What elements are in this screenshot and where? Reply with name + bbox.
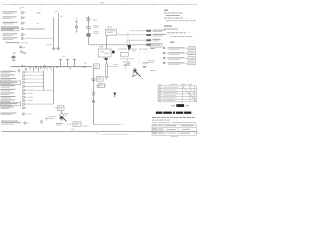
feeder breaker on riser (92, 77, 103, 82)
earth arrow symbol (113, 93, 116, 98)
load row 4 boxed label (0, 81, 20, 84)
busbar joint marks (21, 65, 72, 69)
wire board to T3 (61, 110, 63, 113)
distribution board box bottom center (55, 106, 64, 111)
collector riser below bus (53, 67, 55, 105)
terminal list row 3 (163, 57, 196, 60)
incoming feeder row 5 label (3, 33, 18, 35)
sheet top border line (2, 4, 198, 6)
stub load row 7 (28, 93, 33, 95)
title block left col entries (153, 125, 162, 134)
notes heading 2 (164, 26, 172, 27)
feeder tick 1 below bus (30, 67, 32, 71)
cable end fade (120, 124, 125, 126)
wire row 6 to riser (26, 37, 54, 39)
micro label below-bus tick 2 (40, 67, 42, 70)
riser label text (96, 85, 102, 87)
wire row 4 (26, 28, 45, 30)
load row 2 label (1, 74, 15, 76)
small mark right of spare row (45, 117, 48, 121)
wire row 7 (21, 42, 29, 44)
terminal list row 4 (163, 62, 196, 65)
company address line (152, 117, 196, 119)
fuse symbol load row 10 (23, 103, 25, 105)
feeder tick 5 below bus (50, 67, 52, 71)
incoming feeder row 2 label (3, 16, 17, 18)
notes line 7 (170, 36, 193, 38)
notes line 5 (164, 28, 178, 31)
riser wire 2 from feeder rows (58, 13, 60, 50)
small device bottom mid-left (40, 120, 43, 124)
CT on riser (92, 92, 95, 95)
micro label bus stub (62, 55, 65, 58)
fuse symbol load row 1 (23, 71, 25, 73)
title block grid (152, 124, 196, 135)
fuse symbol row 4 (21, 28, 25, 30)
feeder tick 2 below bus (33, 67, 35, 72)
destination tag 3 (146, 39, 160, 41)
corner reference tick (21, 7, 24, 10)
winding ticks above wire (126, 41, 128, 45)
wire below junction (107, 66, 119, 68)
stub spare row (28, 113, 33, 115)
load row 10 boxed label (0, 102, 20, 105)
instrument stub 3 above bus (73, 59, 75, 67)
wire load row 3 (27, 78, 44, 80)
wire load row 2 (27, 75, 44, 77)
fuse symbol load row 7 (23, 93, 25, 95)
destination tag 1 (146, 30, 165, 32)
revision table header text (159, 83, 193, 86)
riser wire from feeder rows (53, 18, 55, 51)
fuse symbol row 6 (21, 37, 25, 39)
notes line 4 (166, 20, 196, 22)
terminal list row 2 (163, 52, 196, 55)
micro label above relay box (107, 26, 112, 29)
wire stub row 3 (37, 22, 40, 24)
instrument stub 1 above bus (59, 59, 61, 67)
notes line 6 (167, 32, 192, 34)
project text line 1 (152, 119, 177, 121)
riser tie dash (54, 47, 59, 49)
stub load row 8 (28, 96, 33, 98)
fuse symbol load row 4 (23, 82, 25, 84)
bus end cluster box (93, 64, 99, 69)
revision table grid (158, 86, 197, 102)
incoming feeder row 7 label (6, 41, 20, 44)
bus coupler diamond (43, 65, 46, 69)
T3 labels (56, 123, 63, 125)
instrument stub 2 above bus (66, 59, 68, 67)
T2 tail dash (140, 78, 144, 80)
contact symbol cluster A (20, 46, 26, 48)
load row 8 label (1, 96, 16, 98)
outgoing feeder riser (93, 69, 95, 125)
sheet fold mark top center (100, 2, 104, 4)
wire load row 4 (27, 82, 44, 84)
wire panel to switchgear (106, 35, 108, 49)
fuse symbol row 2 (21, 17, 25, 19)
neutral earthing resistor column (105, 64, 109, 80)
notes line 2 (166, 14, 180, 17)
notes line 3 (164, 17, 190, 19)
drawing number cells (180, 129, 196, 134)
metering text row right of T1 (118, 48, 155, 49)
load row 9 label (1, 100, 16, 102)
wire load row 10 long (27, 103, 54, 105)
fuse symbol row 1 (21, 12, 25, 14)
owner logo mark (172, 102, 190, 107)
notes heading (164, 10, 168, 11)
below-box marks (103, 57, 104, 60)
busbar tap circles (29, 66, 85, 67)
footer mark below title block (171, 135, 178, 138)
sheet size mark outside (197, 133, 199, 134)
riser side text (47, 43, 52, 46)
metering text rows (120, 50, 156, 70)
fuse symbol spare row (22, 113, 24, 115)
symbol beside note (24, 122, 29, 124)
contact symbol cluster B (21, 50, 27, 54)
note paragraph bottom left (1, 121, 21, 125)
kiosk box bottom center (73, 122, 89, 127)
tap changer dark node (112, 51, 115, 54)
CT metering stack top center (86, 16, 99, 45)
feeder tick 4 below bus (47, 67, 49, 71)
terminal list row 1 (163, 47, 196, 50)
incoming feeder row 4 label (1, 27, 19, 31)
micro label riser top 2 (60, 15, 63, 18)
outgoing line 3 (127, 39, 146, 41)
revision row entries (159, 87, 179, 101)
fuse symbol row 5 (21, 34, 25, 36)
board label texts (48, 113, 69, 119)
incoming feeder row 1 label (3, 11, 18, 13)
boxed label near tags (151, 44, 163, 48)
load row 3 label (1, 78, 17, 80)
destination tag 2 (146, 34, 166, 36)
destination tag 4 (146, 44, 151, 46)
fuse symbol load row 3 (23, 78, 25, 80)
fuse symbol load row 5 (23, 85, 25, 87)
fuse symbol load row 8 (23, 96, 25, 98)
footer microtext (71, 129, 130, 135)
ladder jog (127, 31, 129, 40)
drawing title text (165, 125, 195, 133)
switchgear outlet dark mark (105, 58, 108, 60)
riser breaker 2 (58, 48, 60, 50)
company name bold (156, 112, 192, 114)
relay panel box (106, 29, 117, 35)
aux device box mid (98, 84, 105, 88)
feeder tick 3 below bus (38, 67, 40, 72)
micro label near bus right (84, 62, 87, 65)
main switchgear box (98, 45, 111, 57)
potential transformer stub (75, 18, 78, 33)
load row 5 label (1, 85, 16, 87)
outgoing cable elbow (94, 124, 121, 126)
label small near wire (114, 64, 127, 70)
spare feeder row label (1, 113, 17, 115)
fuse symbol load row 9 (23, 100, 25, 102)
notes line 1 (164, 12, 186, 14)
fuse symbol load row 11 (23, 107, 25, 109)
load row 7 label (1, 93, 15, 95)
wire stub row 1 (37, 12, 41, 14)
busbar source symbol (12, 52, 24, 61)
legend heading (170, 42, 175, 43)
wire load row 5 (27, 85, 44, 87)
below-bus device 1 (18, 70, 20, 74)
wire T3 to kiosk (67, 123, 74, 125)
fuse symbol row 3 (21, 22, 25, 24)
stub load row 9 (28, 100, 33, 102)
revision table diagonal 2 (190, 86, 194, 96)
wire load row 6 long (27, 89, 54, 91)
project text line 2 (152, 121, 196, 124)
micro label riser top 1 (55, 10, 58, 13)
outgoing line 1 (130, 30, 146, 32)
incoming feeder row 6 label (3, 37, 18, 39)
wire transformer to NER (106, 60, 108, 64)
aux box right of T1 (121, 53, 129, 57)
riser breaker 1 (53, 48, 55, 50)
revision table diagonal (183, 86, 197, 101)
load row 11 label (1, 107, 14, 109)
wire load row 1 (27, 71, 44, 73)
fuse symbol load row 2 (23, 75, 25, 77)
micro label below-bus tick (35, 67, 38, 70)
dashed enclosure box (139, 52, 148, 64)
collector riser for load rows (43, 71, 45, 91)
load row 6 label (1, 89, 16, 91)
T2 labels (143, 62, 151, 68)
disconnect on riser (92, 100, 94, 102)
long metering wire to tag 4 (89, 44, 147, 46)
incoming feeder row 3 label (3, 22, 18, 24)
sheet bottom border line (2, 131, 198, 133)
main busbar (11, 66, 92, 68)
incoming feeder dark flag (127, 45, 131, 51)
auxiliary transformer T2 (132, 69, 141, 77)
load row 1 label (1, 71, 16, 73)
local transformer T3 (60, 114, 67, 122)
fuse symbol load row 6 (23, 89, 25, 91)
outgoing line 2 (116, 34, 146, 36)
below-bus device 2 (25, 69, 27, 71)
